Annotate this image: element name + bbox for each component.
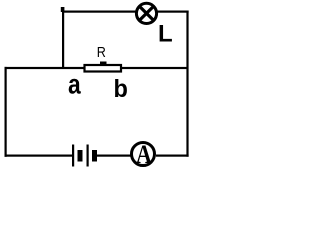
wire left vertical xyxy=(5,67,7,157)
svg-text:R: R xyxy=(97,43,106,60)
svg-text:a: a xyxy=(68,69,81,100)
resistor R xyxy=(85,62,122,72)
svg-text:L: L xyxy=(158,21,173,48)
wire right vertical xyxy=(186,11,188,157)
wire top horizontal (junction to lamp) xyxy=(62,11,136,13)
battery xyxy=(72,145,97,167)
wire resistor to right rail xyxy=(122,67,189,69)
wire middle left (left rail to resistor) xyxy=(5,67,84,69)
ammeter A1 xyxy=(132,141,155,169)
wire battery to ammeter xyxy=(97,155,131,157)
wire ammeter to bottom-right corner xyxy=(156,155,189,157)
wire bottom left (to battery) xyxy=(5,155,73,157)
lamp L xyxy=(136,3,156,23)
wire connector vertical at x=63 xyxy=(62,11,64,70)
svg-text:A: A xyxy=(136,141,152,169)
wire lamp to top-right corner xyxy=(157,11,189,13)
wire top-left stub xyxy=(61,7,65,12)
svg-text:b: b xyxy=(114,75,128,103)
